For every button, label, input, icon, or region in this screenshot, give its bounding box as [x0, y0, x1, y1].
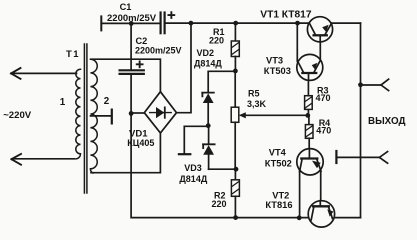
label VT4 type	[265, 159, 292, 169]
label C1 value	[107, 13, 157, 24]
wire: VT4 emitter down to VT2 base	[320, 171, 322, 202]
wire: secondary tap lead	[91, 115, 112, 117]
node: VT4 collector rail junction	[297, 215, 302, 220]
svg-text:R5: R5	[248, 89, 260, 99]
label R5	[248, 89, 260, 99]
label VT2	[272, 190, 289, 200]
wire: bridge plus corner up to top rail	[177, 23, 192, 113]
wire: VT1 emitter to right bus	[332, 22, 361, 24]
wire: C2 bottom to minus node	[130, 75, 132, 113]
svg-text:КТ816: КТ816	[265, 200, 292, 210]
wire: mains input top lead with arrow	[11, 68, 77, 79]
label R3	[317, 86, 329, 96]
transistor VT4	[297, 148, 323, 175]
svg-text:КЦ405: КЦ405	[127, 138, 154, 148]
label output	[368, 116, 405, 127]
label VD3	[184, 163, 202, 173]
wire: VD2 top connection	[208, 71, 235, 92]
terminal bar on secondary tap	[111, 110, 113, 124]
label R3 value	[316, 93, 331, 103]
wire: minus node down to bottom rail	[131, 113, 360, 217]
potentiometer R5 body	[231, 107, 239, 122]
wire: right bus vertical	[360, 23, 362, 218]
zener diode VD3	[203, 126, 215, 170]
zener diode VD2	[202, 93, 214, 126]
wire: C2 top branch	[130, 23, 132, 69]
label C2	[136, 36, 148, 46]
svg-text:2200m/25V: 2200m/25V	[107, 13, 157, 24]
wire: midpoint to hanging terminal	[184, 126, 208, 153]
potentiometer R5 wiper arrow	[239, 112, 308, 118]
svg-text:220: 220	[212, 199, 227, 209]
resistor R1	[231, 41, 239, 57]
wire: plus output lead	[361, 84, 382, 86]
label VT2 type	[265, 200, 292, 210]
label C2 value	[135, 46, 182, 56]
label C2 polarity	[136, 61, 144, 69]
resistor R3	[305, 96, 313, 110]
svg-text:1: 1	[60, 97, 66, 108]
svg-text:VD2: VD2	[197, 48, 215, 58]
wire: minus output lead	[336, 156, 379, 158]
label winding 2	[104, 96, 110, 107]
bridge rectifier VD1 diamond	[144, 92, 176, 133]
svg-text:Д814Д: Д814Д	[179, 174, 207, 184]
node: VT3 collector rail junction	[295, 21, 300, 26]
wire: R2 top lead	[234, 169, 236, 180]
transistor VT1	[307, 17, 332, 42]
terminal bar minus output	[335, 151, 337, 163]
label R1	[213, 27, 225, 37]
transistor VT2	[308, 201, 334, 227]
svg-text:VT4: VT4	[269, 148, 287, 158]
wire: VT3 collector line from rail	[296, 23, 298, 61]
svg-text:~220V: ~220V	[3, 110, 32, 121]
wire: R3 bottom lead	[307, 109, 309, 115]
node: bridge minus junction	[129, 111, 134, 116]
wire: R4 bottom lead to VT4 base	[308, 138, 310, 148]
label winding 1	[60, 97, 66, 108]
node: plus output junction	[358, 82, 363, 87]
wire: VD3 bottom to R5/R2 node	[209, 168, 236, 170]
resistor R2	[231, 180, 239, 197]
svg-text:2200m/25V: 2200m/25V	[135, 46, 182, 56]
wire: secondary bottom lead to bridge bottom corner	[91, 133, 160, 173]
node: R3/R4/wiper junction	[305, 113, 310, 118]
bridge rectifier VD1 internal diode	[150, 107, 172, 118]
wire: R1 bottom lead	[234, 57, 236, 71]
wire: R2 bottom lead	[234, 196, 236, 217]
label VD3 type	[179, 174, 207, 184]
label R5 value	[247, 99, 267, 109]
svg-text:VT3: VT3	[266, 56, 283, 66]
svg-text:VT1 КТ817: VT1 КТ817	[260, 9, 312, 20]
wire: VT4 collector to bottom rail	[299, 170, 301, 218]
label VT3 type	[264, 66, 291, 76]
terminal bar at top rail left end	[100, 16, 102, 30]
wire: R5 bottom lead	[234, 122, 236, 169]
label R2 value	[212, 199, 227, 209]
label VT3	[266, 56, 283, 66]
svg-text:VD3: VD3	[184, 163, 202, 173]
label VD2 type	[194, 59, 222, 69]
transformer T1 secondary winding 2	[90, 59, 97, 173]
capacitor C2	[120, 70, 144, 74]
wire: minus node to bridge left corner	[131, 112, 145, 114]
wire: top rail left segment (to C1)	[101, 22, 159, 24]
svg-text:КТ502: КТ502	[265, 159, 292, 169]
label mains voltage	[3, 110, 32, 121]
label R2	[214, 190, 226, 200]
svg-text:VT2: VT2	[272, 190, 289, 200]
node: zener midpoint junction	[206, 123, 211, 128]
label R4 value	[316, 125, 331, 135]
transformer T1 primary winding 1	[76, 69, 81, 159]
svg-text:470: 470	[316, 125, 331, 135]
node: R5 bottom / R2 top junction	[234, 167, 239, 172]
label VT1	[260, 9, 312, 20]
wire: R3 top lead to VT3 base	[307, 80, 309, 96]
label VD1 type	[127, 138, 154, 148]
node: bridge plus rail junction	[189, 21, 194, 26]
resistor R4	[305, 125, 313, 139]
svg-text:T1: T1	[66, 49, 80, 60]
wire: secondary top lead to bridge top corner	[91, 59, 160, 92]
wire: R1 top lead	[234, 23, 236, 41]
svg-text:Д814Д: Д814Д	[194, 59, 222, 69]
label C1 polarity	[168, 11, 176, 19]
svg-text:470: 470	[316, 93, 331, 103]
label R4	[319, 118, 331, 128]
node: R1 bottom junction	[233, 69, 238, 74]
svg-text:C1: C1	[120, 2, 132, 12]
label T1	[66, 49, 80, 60]
label C1	[120, 2, 132, 12]
transistor VT3	[297, 54, 323, 80]
wire: mains input bottom lead with arrow	[11, 154, 74, 165]
node: R1 top junction	[233, 21, 238, 26]
label VD1	[129, 129, 148, 140]
transformer T1 core	[84, 44, 87, 193]
wire: top rail from C1 to VT1	[166, 22, 310, 24]
connector fork minus output	[379, 152, 387, 164]
svg-text:220: 220	[209, 36, 224, 46]
node: R2 bottom rail junction	[233, 215, 238, 220]
label VT4	[269, 148, 287, 158]
wire: R4 top lead	[308, 115, 310, 124]
svg-text:C2: C2	[136, 36, 148, 46]
wire: R5 top lead	[234, 71, 236, 107]
terminal bar below zener midpoint	[179, 153, 190, 155]
label R1 value	[209, 36, 224, 46]
node: C2 top junction	[129, 21, 134, 26]
svg-text:3,3K: 3,3K	[247, 99, 267, 109]
label VD2	[197, 48, 215, 58]
svg-text:ВЫХОД: ВЫХОД	[368, 116, 405, 127]
wire: VT1 base to VT3 emitter	[319, 42, 321, 61]
connector fork plus output	[381, 79, 389, 90]
capacitor C1	[161, 13, 165, 34]
svg-text:КТ503: КТ503	[264, 66, 291, 76]
svg-text:2: 2	[104, 96, 110, 107]
